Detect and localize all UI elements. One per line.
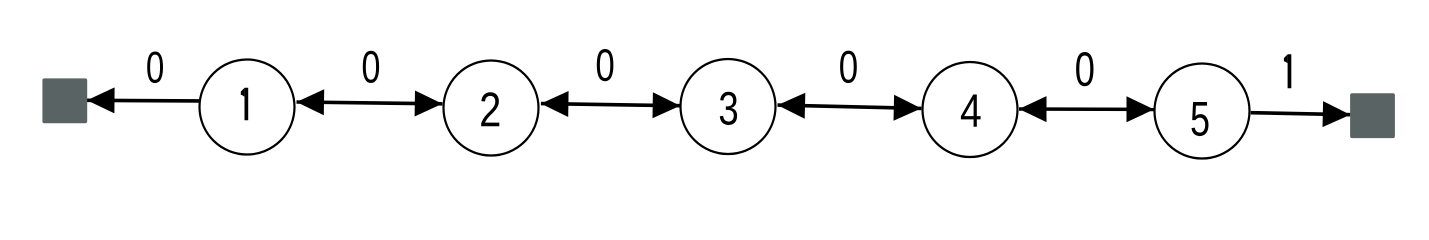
arrowhead on edge state1 to left square (left end) [87,87,115,113]
wire: edge state1 to left square [87,99,199,103]
wire: edge state2 to state3 [541,104,680,106]
wire: edge state5 to right square [1251,113,1351,115]
edge label 0 [840,51,857,84]
digit label 1 inside circle [241,88,248,121]
arrowhead on edge state3 to state4 (left end) [778,93,806,119]
arrowhead on edge state4 to state5 (right end) [1127,96,1155,122]
arrowhead on edge state4 to state5 (left end) [1019,96,1047,122]
edge label 0 [147,51,163,83]
arrowhead on edge state1 to state2 (right end) [415,91,443,117]
digit label 5 inside circle [1191,102,1208,136]
arrowhead on edge state5 to right square (right end) [1323,101,1351,127]
node: circle state 3 [681,59,776,154]
wire: edge state1 to state2 [297,102,443,104]
node: circle state 2 [444,61,539,156]
arrowhead on edge state2 to state3 (left end) [541,91,569,117]
wire: edge state3 to state4 [778,105,922,108]
digit label 2 inside circle [481,92,499,126]
node: circle state 4 [923,62,1018,157]
node: left absorbing square [42,78,87,123]
edge label 0 [1076,52,1093,86]
arrowhead on edge state2 to state3 (right end) [653,92,681,118]
node: circle state 1 [200,60,295,155]
edge label 0 [597,49,614,81]
digit label 4 inside circle [961,95,981,127]
digit label 3 inside circle [720,92,737,125]
edge label 0 [363,51,379,83]
node: circle state 5 [1155,64,1250,159]
wire: edge state4 to state5 [1019,107,1154,111]
node: right absorbing square [1350,93,1395,138]
arrowhead on edge state3 to state4 (right end) [894,95,922,121]
arrowhead on edge state1 to state2 (left end) [297,89,325,115]
edge label 1 [1284,54,1291,88]
